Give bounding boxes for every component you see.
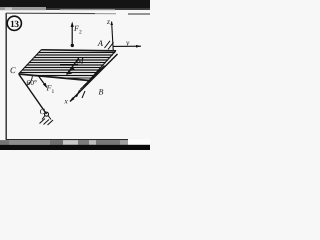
svg-text:1: 1 bbox=[52, 89, 55, 95]
svg-text:C: C bbox=[10, 65, 16, 75]
svg-text:C: C bbox=[40, 107, 46, 116]
svg-text:M: M bbox=[76, 56, 85, 66]
svg-text:y: y bbox=[125, 38, 130, 47]
svg-text:x: x bbox=[64, 97, 69, 106]
svg-text:13: 13 bbox=[10, 20, 19, 30]
svg-text:A: A bbox=[97, 38, 104, 48]
svg-text:2: 2 bbox=[79, 30, 82, 36]
svg-text:60°: 60° bbox=[27, 78, 38, 87]
svg-text:z: z bbox=[106, 17, 110, 26]
svg-text:B: B bbox=[99, 88, 104, 97]
